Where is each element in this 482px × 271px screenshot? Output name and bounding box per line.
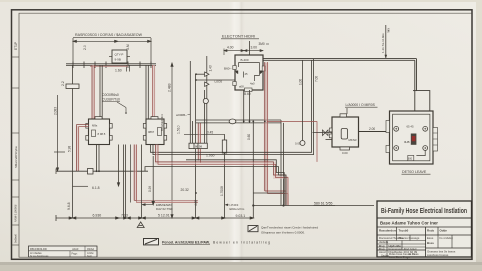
svg-text:SManindOStrybw: SManindOStrybw — [14, 145, 18, 168]
svg-text:C0O0R6s0: C0O0R6s0 — [102, 93, 119, 97]
svg-text:sb 0 sss: sb 0 sss — [408, 252, 419, 256]
lamp L1 — [203, 98, 208, 103]
svg-text:'MX: 'MX — [386, 28, 390, 33]
svg-text:Base Adame Tuhoo Cor Iner: Base Adame Tuhoo Cor Iner — [380, 221, 438, 226]
wire: red overlay on bus — [90, 65, 128, 67]
wire: black pair DB2 to bus riser — [151, 59, 314, 155]
wire: red pair drop x198 — [198, 123, 200, 163]
svg-text:5 12.01: 5 12.01 — [158, 213, 170, 217]
wire: drop x302.5 with lamp — [295, 60, 305, 145]
junction dots on bottom line — [195, 192, 285, 206]
wire: drop x141 to note arrow — [141, 145, 143, 219]
dimension line D2 (vertical 2483) — [171, 63, 173, 218]
wire: black bundle lower lines — [145, 160, 286, 206]
wire: horizontal room feed — [56, 170, 148, 172]
svg-text:0.60: 0.60 — [247, 134, 251, 140]
node label: feeder circuits heading — [73, 33, 151, 38]
svg-text:JAA3: JAA3 — [72, 247, 79, 251]
wire: left drop to switch S1 — [72, 65, 74, 171]
shadow under sheet bottom edge — [0, 262, 482, 265]
node label: kitchen circuit callout — [102, 93, 126, 113]
approval table text — [30, 247, 95, 258]
svg-text:0.05: 0.05 — [295, 142, 301, 146]
node label 580 61 5/55 — [314, 202, 336, 206]
svg-text:86 98: 86 98 — [195, 145, 202, 149]
wire: black pair bus to DB1 — [100, 65, 102, 119]
svg-text:ELECTONT HIDRl: ELECTONT HIDRl — [222, 34, 255, 39]
wire: black pair to dim — [124, 145, 126, 219]
wire: drop x153 with arrow — [152, 156, 154, 205]
wire: drop x118 — [117, 145, 119, 187]
node label: panel caption — [402, 170, 431, 174]
svg-text:L/A0000 I O MIR0S: L/A0000 I O MIR0S — [346, 103, 376, 107]
wire: left drop to dim line — [72, 171, 74, 218]
svg-text:0HB: 0HB — [404, 140, 410, 144]
svg-text:L0O5: L0O5 — [215, 80, 223, 84]
wire: drop x253 to dims — [252, 121, 254, 218]
wire: horizontal y134 — [184, 133, 225, 135]
main panel U3 — [386, 111, 438, 164]
fuse F1 — [205, 72, 209, 86]
svg-text:Bsss: Bsss — [427, 241, 434, 245]
wire: red pair DB1 area down to red run — [134, 145, 198, 203]
svg-text:2.083: 2.083 — [54, 107, 58, 115]
node label: meter cabinet heading — [345, 103, 378, 114]
wire: meter left stub — [196, 79, 235, 81]
junction dots on under-meter line — [96, 112, 266, 172]
fuse box F2 — [189, 143, 207, 148]
svg-text:w000B--: w000B-- — [176, 113, 187, 117]
svg-text:4.05: 4.05 — [194, 200, 198, 206]
svg-text:6.1.8: 6.1.8 — [92, 186, 100, 190]
svg-text:1.7008: 1.7008 — [220, 186, 224, 196]
svg-text:M9s: M9s — [92, 124, 98, 128]
svg-text:1.930: 1.930 — [206, 154, 215, 158]
svg-text:9.03.1: 9.03.1 — [236, 214, 246, 218]
title block row texts — [379, 229, 456, 259]
svg-text:Penod. ArchtzUKB E3./PAW.: Penod. ArchtzUKB E3./PAW. — [162, 240, 210, 244]
wire: black pair bus to DB2 — [146, 65, 148, 119]
svg-text:5.98: 5.98 — [68, 146, 72, 152]
svg-text:Rsds: Rsds — [427, 229, 434, 233]
legend symbol LG1 — [248, 226, 318, 235]
svg-text:3.00: 3.00 — [251, 45, 258, 49]
outlet box K1 — [88, 169, 94, 175]
svg-text:65 45: 65 45 — [407, 125, 414, 129]
wire: pink pair bus to DB2 — [153, 65, 155, 119]
svg-text:B.60: B.60 — [244, 92, 251, 96]
breaker K2 (red) — [404, 125, 416, 161]
terminal cross marks — [395, 128, 426, 149]
junction dots service riser — [195, 73, 197, 81]
svg-text:2.2: 2.2 — [61, 81, 65, 86]
svg-text:45: 45 — [245, 72, 248, 76]
paper crease vertical — [228, 2, 246, 262]
svg-text:2.483: 2.483 — [168, 83, 172, 92]
wire: lower distribution line — [253, 193, 374, 206]
svg-text:Bi-Family Hose Electrical Inst: Bi-Family Hose Electrical Instlation — [381, 206, 467, 215]
node label: riser callout — [381, 25, 390, 58]
svg-text:03/A2: 03/A2 — [87, 247, 95, 251]
svg-text:DAV 62.TW0: DAV 62.TW0 — [156, 207, 173, 211]
svg-text:QaeTmedesleot rtswrt Crede i f: QaeTmedesleot rtswrt Crede i fwdsrlstred — [261, 226, 318, 230]
svg-text:8 98.5: 8 98.5 — [98, 132, 106, 136]
svg-text:580 61 5/55: 580 61 5/55 — [314, 202, 333, 206]
svg-text:1.510: 1.510 — [177, 125, 181, 134]
meter cabinet U2 — [329, 114, 358, 155]
dimension line D1 (top left) — [73, 38, 151, 64]
svg-text:ET1P: ET1P — [14, 42, 18, 50]
svg-text:7/03: 7/03 — [121, 213, 128, 217]
wire: branch to meter cabinet — [313, 133, 333, 140]
terminal T1 — [394, 126, 428, 150]
distribution board DB1 — [86, 117, 112, 145]
svg-text:br ss dsrsbssss: br ss dsrsbssss — [30, 254, 49, 258]
svg-text:0867: 0867 — [148, 130, 155, 134]
wire: main service bus — [263, 59, 417, 61]
svg-text:2.0: 2.0 — [83, 45, 87, 50]
svg-text:RASRC0SO3 I COR'AS / $AC/ASA3E: RASRC0SO3 I COR'AS / $AC/ASA3EOW — [75, 33, 143, 37]
svg-text:4a0: 4a0 — [250, 82, 255, 86]
svg-text:B60--: B60-- — [224, 66, 232, 70]
svg-text:bsd: bsd — [87, 254, 92, 258]
dimension line D5 (left vertical) — [54, 95, 65, 171]
svg-text:2.00: 2.00 — [369, 127, 375, 131]
node label: electrical meter heading — [221, 34, 259, 39]
wire: cabinet to panel link — [359, 131, 390, 133]
svg-text:BA3/9EC0h3: BA3/9EC0h3 — [160, 114, 164, 131]
svg-text:a08: a08 — [239, 85, 244, 89]
wire: drop x130 — [130, 145, 132, 203]
warning triangle — [137, 222, 144, 228]
left margin strip cells — [12, 57, 20, 245]
wire: meter bottom drops — [244, 90, 250, 123]
wire: bus drop pair to panel — [413, 59, 430, 111]
svg-text:B00: B00 — [408, 157, 413, 161]
svg-text:QTY-P: QTY-P — [115, 53, 124, 57]
svg-text:Elb0ervrlrm: Elb0ervrlrm — [230, 207, 245, 211]
svg-text:Rassderdsrs: Rassderdsrs — [379, 229, 397, 233]
wire: meter supply drop — [249, 41, 251, 55]
svg-text:3.M: 3.M — [126, 44, 130, 50]
fuse F3 — [222, 140, 226, 153]
svg-text:20.32: 20.32 — [181, 188, 189, 192]
svg-text:1.60: 1.60 — [115, 69, 122, 73]
svg-text:Bewoel en Instalatileg: Bewoel en Instalatileg — [213, 240, 270, 244]
node label: riser note — [225, 203, 245, 211]
wire: red feed DB1 left — [77, 125, 89, 172]
wire: riser x190 — [189, 61, 191, 143]
bottom-left approval table — [29, 246, 98, 257]
svg-text:DET0O LEAVE: DET0O LEAVE — [402, 170, 427, 174]
wire: service riser left of meter — [196, 56, 207, 143]
wire: top-left horizontal bus — [66, 62, 156, 69]
wire: panel internal link — [416, 150, 425, 155]
svg-text:0.00: 0.00 — [342, 151, 348, 155]
svg-text:Gllrqraecs ase b'srlwms 0.0000: Gllrqraecs ase b'srlwms 0.0000. — [261, 231, 305, 235]
svg-text:Fsgr:: Fsgr: — [72, 252, 78, 256]
svg-text:3M0: 3M0 — [259, 42, 265, 46]
dimension line D4 (bottom) — [56, 215, 254, 221]
svg-text:MKN3: MKN3 — [349, 138, 357, 142]
svg-text:1.11 Ss.rd.bbs: 1.11 Ss.rd.bbs — [381, 33, 385, 53]
wire: under-meter horizontal pair — [196, 120, 281, 123]
node label 3M0 callout — [259, 42, 270, 46]
legend symbol LG2 — [144, 239, 271, 245]
dimension line D3 above meter — [224, 45, 263, 55]
wire: red riser pair from meter — [265, 62, 288, 206]
svg-text:Bhscss Kssssgs: Bhscss Kssssgs — [399, 236, 420, 240]
meter M1 — [233, 55, 266, 92]
wire: vertical x195 — [193, 74, 196, 218]
wire: DB1 bottom pair — [97, 145, 100, 172]
wire: short stubs below bus — [127, 65, 130, 71]
svg-text:0.99: 0.99 — [148, 186, 152, 192]
wire: maroon branch to riser — [267, 122, 317, 162]
distribution board DB2 — [143, 117, 166, 145]
outlet symbol O1 — [229, 119, 236, 124]
svg-text:4.00: 4.00 — [227, 45, 234, 49]
svg-text:Tscsb0: Tscsb0 — [399, 229, 409, 233]
wire: corner drops x281 — [281, 120, 284, 206]
title block frame — [377, 201, 472, 257]
wire: red pair bus to board DB1 — [92, 65, 94, 119]
svg-text:B-400: B-400 — [241, 58, 249, 62]
svg-text:1.43: 1.43 — [209, 65, 213, 71]
svg-text:9-9B: 9-9B — [115, 58, 121, 62]
switch S1 — [66, 84, 79, 89]
svg-text:CU3UP/7s0: CU3UP/7s0 — [102, 98, 120, 102]
svg-text:Odde: Odde — [440, 229, 448, 233]
wire: stub y186 — [73, 185, 89, 187]
svg-text:Esss: Esss — [427, 236, 434, 240]
svg-text:9.6.8: 9.6.8 — [67, 202, 71, 210]
svg-text:NNW-1 (0000)!: NNW-1 (0000)! — [14, 204, 18, 222]
svg-text:0s0bw0: 0s0bw0 — [14, 234, 18, 243]
svg-text:hs s'sbdsy: hs s'sbdsy — [440, 236, 454, 240]
svg-text:RB-0/M33-DD: RB-0/M33-DD — [30, 247, 47, 251]
svg-text:1.00: 1.00 — [298, 79, 302, 85]
wire: maroon staircase pair from DB2 — [156, 145, 289, 206]
svg-text:ssssbsss bsssss: ssssbsss bsssss — [427, 253, 449, 257]
svg-text:6.930: 6.930 — [93, 213, 102, 217]
wire: fuse tail vertical x225 — [224, 134, 226, 218]
switch S2 (bowtie valve) — [323, 130, 329, 136]
svg-text:7.00: 7.00 — [315, 76, 319, 82]
node label w000B — [176, 113, 190, 117]
node label: cable note — [142, 203, 173, 211]
junction box JB1 — [109, 50, 130, 63]
